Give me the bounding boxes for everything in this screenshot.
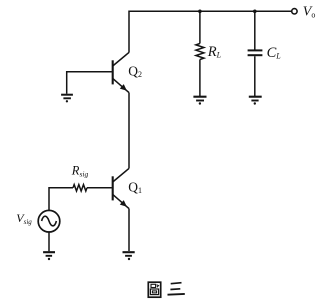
source Vsig circle <box>38 210 60 232</box>
caption 圖三 (drawn) <box>148 282 185 297</box>
wire Q2 base <box>67 72 112 94</box>
node junction CL <box>253 10 257 14</box>
wire Rsig left / down to source <box>49 188 73 211</box>
圖 outer box <box>148 282 160 297</box>
ground G2 (Q1 emitter) <box>123 252 135 260</box>
wire source to ground <box>48 232 50 251</box>
sine wave <box>42 216 57 226</box>
ground G3 (Vsig) <box>43 252 55 260</box>
resistor RL <box>196 44 204 60</box>
wire CL top lead <box>254 11 256 49</box>
capacitor CL <box>248 50 263 55</box>
wire Q2 emitter to Q1 collector <box>128 93 130 169</box>
ground G5 (CL) <box>249 97 262 105</box>
wire top rail <box>129 11 291 52</box>
圖 inner top tick <box>157 285 159 287</box>
wire CL bottom lead <box>254 56 256 96</box>
wire Q1 emitter down <box>128 209 130 251</box>
圖 inner bottom core <box>152 291 156 293</box>
ground G1 (Q2 base) <box>61 95 73 103</box>
wire RL top lead <box>199 11 201 43</box>
ground G4 (RL) <box>193 97 206 105</box>
圖 inner bottom 回 <box>150 289 158 295</box>
三 stroke 3 <box>168 293 185 296</box>
transistor Q1 <box>113 168 129 208</box>
wire base Q1 right segment <box>87 187 112 189</box>
output terminal Vo <box>292 9 297 14</box>
wire RL bottom lead <box>199 60 201 97</box>
三 stroke 1 <box>171 283 182 284</box>
node junction RL <box>198 10 202 14</box>
transistor Q2 <box>113 52 129 92</box>
圖 inner top 口 <box>151 284 156 287</box>
resistor Rsig <box>73 185 87 191</box>
三 stroke 2 <box>170 288 180 291</box>
